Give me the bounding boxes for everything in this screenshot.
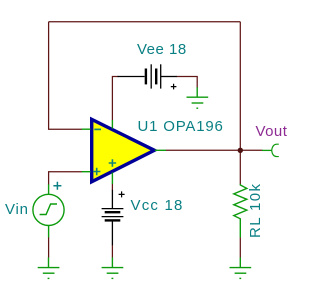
battery Vee 18 right lead [161, 76, 177, 78]
ground (Vin) [38, 257, 60, 278]
wire op-amp V- pin up to Vee battery [112, 77, 118, 121]
source Vin bottom pin [48, 225, 50, 237]
wire op-amp output to node [166, 149, 241, 151]
op-amp U1 inverting input pin [82, 128, 91, 130]
wire node down to RL [239, 150, 241, 184]
battery Vcc 18 plates [102, 209, 124, 221]
wire RL bottom to ground [239, 237, 241, 257]
battery Vcc 18 bottom lead [111, 221, 113, 246]
wire Vcc battery bottom to ground [111, 245, 113, 258]
battery Vcc 18 plus mark [119, 191, 125, 197]
ground (Vee) [187, 87, 209, 108]
wire op-amp V+ pin to Vcc battery [111, 184, 113, 191]
label Vin [5, 202, 29, 217]
battery Vcc 18 top lead [111, 190, 113, 209]
resistor RL 10k zigzag [234, 184, 247, 221]
source Vin waveform [40, 204, 57, 215]
op-amp U1 V+ supply mark [109, 159, 116, 166]
label RL 10k [248, 182, 263, 237]
label U1 OPA196 [138, 119, 224, 134]
wire Vee battery to ground corner [176, 77, 197, 88]
ground (Vcc) [102, 257, 124, 278]
battery Vee 18 plus mark [171, 84, 177, 90]
wire top rail [49, 21, 241, 23]
battery Vee 18 left lead [118, 76, 145, 78]
label Vcc 18 [131, 198, 184, 213]
label Vee 18 [137, 42, 187, 57]
source Vin circle [33, 194, 64, 225]
wire non-inverting input to Vin corner [49, 172, 82, 185]
output terminal Vout pin [262, 149, 272, 151]
op-amp U1 non-inverting mark [93, 168, 100, 175]
source Vin top pin [48, 184, 50, 194]
op-amp U1 top supply pin [111, 120, 113, 129]
wire right drop to output node [239, 22, 241, 151]
op-amp U1 inverting mark [94, 128, 101, 130]
op-amp U1 non-inverting input pin [82, 171, 91, 173]
wire left drop to inverting input [49, 22, 82, 129]
op-amp U1 output pin [155, 149, 166, 151]
battery Vee 18 plates [146, 64, 161, 88]
resistor RL bottom stub [239, 221, 241, 238]
ground (RL) [230, 257, 252, 278]
wire Vin source bottom to ground [48, 237, 50, 258]
wire node to Vout terminal [240, 149, 262, 151]
op-amp U1 triangle [92, 119, 155, 181]
source Vin plus mark [53, 182, 61, 190]
op-amp U1 bottom supply pin [111, 173, 113, 184]
label Vout [256, 124, 288, 139]
output terminal Vout hook [272, 144, 279, 156]
node A output junction dot [238, 148, 243, 153]
